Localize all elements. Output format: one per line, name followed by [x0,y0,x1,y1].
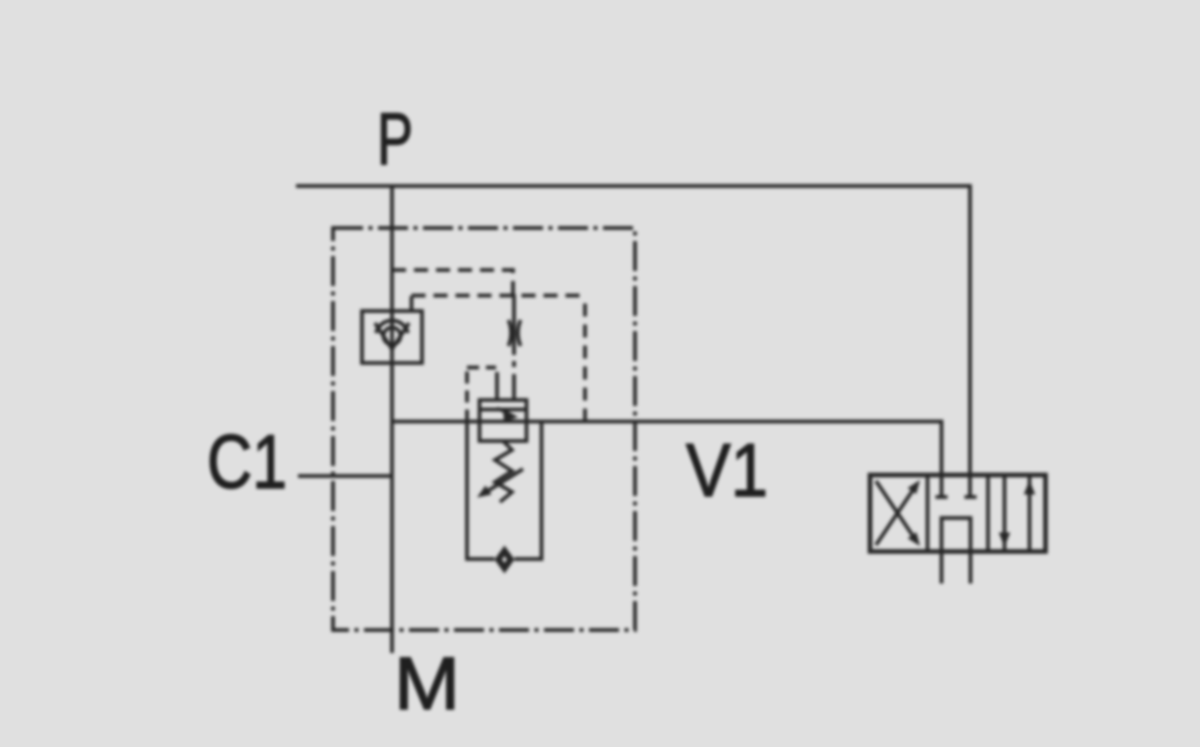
svg-text:C1: C1 [207,420,287,505]
wire C1 port line [298,474,392,478]
directional valve divider 1 [926,475,930,552]
relief valve RV1 [480,400,527,441]
valve block boundary (dash-dot) [333,228,635,630]
pilot line (dashed) check valve to V1 [410,296,414,311]
wire V1 line [392,422,942,498]
wire main vertical P to M [390,186,394,653]
directional valve DV body [870,475,1046,552]
wire P supply line [296,186,970,497]
pilot line (dashed) wire to orifice [392,270,513,294]
DV right position straight arrows [999,475,1035,552]
svg-text:M: M [394,642,460,725]
DV centre position connected ports [942,518,971,584]
pilot line orifice drop [512,294,516,400]
check valve CV1 [362,311,422,363]
svg-text:V1: V1 [686,428,768,512]
drain diamond [495,546,515,574]
DV left position crossed arrows [876,480,920,546]
pilot line (dashed) relief valve sense [467,368,496,422]
relief valve enclosure [467,422,542,560]
orifice restrictor [509,320,521,346]
spring of relief valve [495,441,512,502]
svg-text:P: P [377,99,413,180]
adjustment arrow [477,469,523,498]
DV centre position blocked ports [936,495,977,499]
directional valve divider 2 [986,475,990,552]
